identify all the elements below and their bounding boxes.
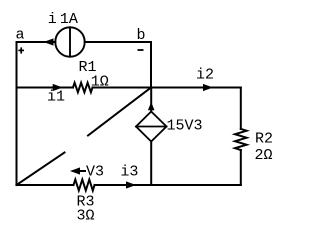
arrow i3 (points right, bottom wire) — [126, 181, 136, 188]
svg-text:1Ω: 1Ω — [91, 74, 109, 91]
svg-text:i: i — [48, 11, 57, 28]
svg-text:1A: 1A — [60, 11, 78, 28]
wire diagonal upper segment — [88, 88, 151, 136]
arrow of dependent source (points up) — [148, 102, 155, 110]
resistor R3 zigzag — [74, 180, 95, 191]
wire right rail lower — [240, 150, 242, 185]
wire row2 right — [93, 87, 241, 89]
current source U1 internal bar — [69, 27, 71, 56]
dependent source D1 middle chord — [136, 126, 167, 128]
svg-text:15V3: 15V3 — [167, 118, 203, 135]
wire right rail upper — [240, 88, 242, 129]
wire diagonal lower segment — [17, 153, 65, 186]
wire bottom left — [17, 184, 74, 186]
current source U1 circle 1A — [55, 27, 84, 56]
svg-text:i1: i1 — [47, 89, 65, 106]
arrow i (points left, on top wire) — [44, 38, 54, 45]
svg-text:V3: V3 — [86, 163, 104, 180]
svg-text:2Ω: 2Ω — [255, 147, 273, 164]
arrow V3 head (points left, above R3) — [70, 167, 80, 174]
svg-text:a: a — [16, 27, 25, 44]
polarity - at node b — [138, 49, 144, 51]
svg-text:3Ω: 3Ω — [77, 208, 95, 225]
arrow i2 (points right, row2) — [203, 84, 213, 91]
svg-text:R2: R2 — [255, 131, 273, 148]
dependent current source D1 diamond 15V3 — [136, 112, 167, 142]
resistor R1 zigzag — [73, 83, 93, 93]
svg-text:b: b — [137, 27, 146, 44]
polarity + at node a — [18, 47, 24, 53]
resistor R2 zigzag — [235, 129, 247, 150]
wire row2 left — [17, 87, 74, 89]
arrow V3 tail line — [78, 170, 86, 172]
wire stem below dependent source — [150, 142, 152, 186]
wire stem above dependent source — [150, 88, 152, 112]
svg-text:i3: i3 — [120, 164, 138, 181]
wire bottom right — [95, 184, 241, 186]
wire top left segment a to source — [17, 41, 56, 43]
arrow i1 (points right, row2) — [53, 84, 63, 91]
wire top right segment source to b — [85, 41, 151, 43]
svg-text:i2: i2 — [196, 67, 214, 84]
wire b corner down — [150, 42, 152, 88]
wire left rail — [16, 42, 18, 185]
